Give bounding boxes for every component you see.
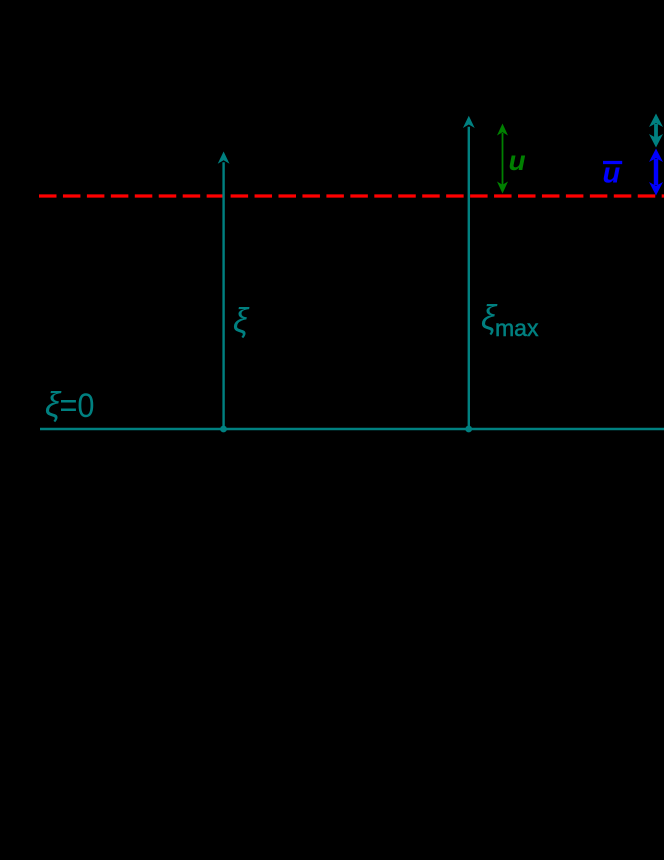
teal double arrow (right edge, amplitude) — [649, 114, 663, 148]
baseline xi=0 — [40, 428, 664, 431]
label u-bar (blue) — [603, 158, 623, 190]
node marker at xi arrow base — [220, 426, 227, 433]
label xi=0 — [45, 386, 95, 425]
red dashed line (mean level) — [39, 194, 664, 197]
svg-text:ξ: ξ — [233, 302, 250, 340]
svg-text:max: max — [495, 315, 539, 341]
arrow xi (left vertical arrow) — [218, 152, 230, 430]
arrow xi_max (right vertical arrow) — [463, 116, 475, 429]
node marker at xi_max arrow base — [465, 426, 472, 433]
label xi — [233, 302, 250, 340]
blue double arrow (right edge, u-bar) — [649, 149, 663, 196]
svg-text:u: u — [509, 145, 526, 176]
label xi_max — [481, 299, 539, 341]
green double arrow u — [497, 124, 508, 194]
svg-text:=0: =0 — [60, 387, 95, 425]
label u (green) — [509, 145, 526, 176]
